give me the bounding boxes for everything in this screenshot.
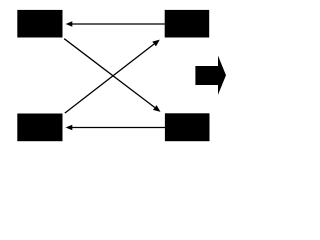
box bottom-left	[17, 114, 62, 142]
box top-right	[165, 10, 210, 38]
arrow bottom-left box to top-right box (diagonal)	[65, 40, 160, 114]
arrow top-left box to bottom-right box (diagonal)	[64, 39, 160, 112]
arrow top-right box to top-left box	[66, 21, 165, 26]
box bottom-right	[165, 113, 210, 141]
block arrow pointing right	[195, 56, 226, 95]
arrow bottom-right box to bottom-left box	[66, 125, 165, 130]
box top-left	[17, 10, 62, 38]
